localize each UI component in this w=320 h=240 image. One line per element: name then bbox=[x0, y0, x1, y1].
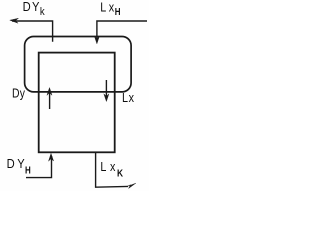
arrowhead Lx_H (points down) bbox=[94, 36, 99, 44]
label DY_H bbox=[7, 157, 31, 176]
svg-text:k: k bbox=[40, 6, 45, 18]
label DY_k bbox=[23, 0, 46, 18]
arrowhead DY_H (points up) bbox=[49, 153, 54, 161]
svg-text:H: H bbox=[25, 165, 31, 176]
svg-text:H: H bbox=[115, 6, 121, 17]
wire DY_H input bbox=[26, 156, 52, 178]
wire DY_k output bbox=[12, 21, 53, 42]
arrowhead Dy (points up) bbox=[47, 88, 52, 96]
arrowhead DY_k (points left) bbox=[10, 18, 19, 23]
label Lx_K bbox=[100, 160, 123, 178]
arrowhead Lx (points down) bbox=[104, 94, 109, 102]
svg-text:K: K bbox=[117, 168, 123, 179]
wire Dy inflow bbox=[49, 90, 51, 109]
label Lx_H bbox=[100, 1, 120, 17]
svg-text:DY: DY bbox=[23, 0, 41, 14]
inner rectangle box bbox=[39, 53, 115, 153]
svg-text:Dy: Dy bbox=[12, 86, 25, 100]
arrowhead Lx_K (points right, tilted up) bbox=[127, 183, 136, 188]
outer rounded boundary box bbox=[25, 37, 132, 92]
wire Lx_K output bbox=[96, 152, 128, 187]
svg-text:Lx: Lx bbox=[122, 91, 135, 105]
wire Lx_H input bbox=[97, 21, 147, 41]
svg-text:Lx: Lx bbox=[100, 160, 119, 174]
wire Lx outflow bbox=[105, 80, 107, 99]
